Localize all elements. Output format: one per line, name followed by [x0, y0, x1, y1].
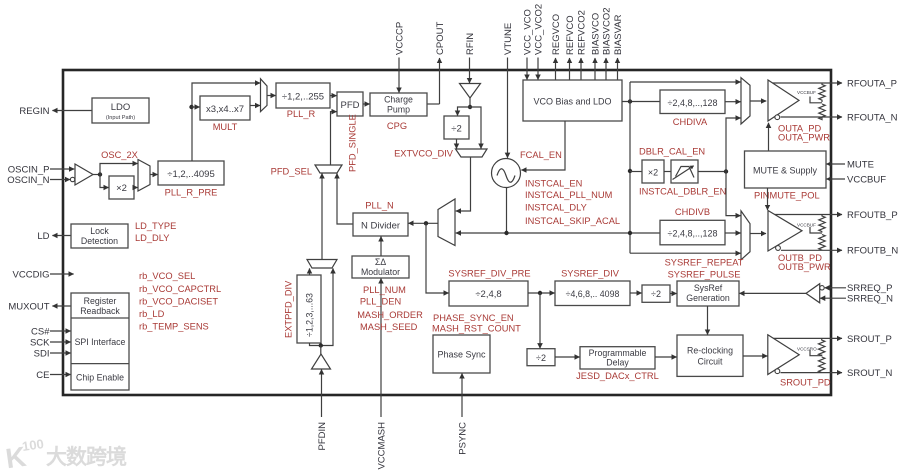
- node VCO bus top junction: [628, 99, 632, 103]
- modulator Sigma-Delta: [352, 256, 409, 278]
- wire VCO distribution bus: [629, 82, 631, 253]
- svg-text:LD_DLY: LD_DLY: [135, 233, 169, 243]
- block Programmable Delay: [580, 347, 655, 369]
- pin BIASVAR: [613, 14, 624, 80]
- wire filter out to doubler bus: [698, 169, 728, 173]
- node bus doubler junction: [628, 169, 642, 173]
- wire EXTPFD bypass: [321, 268, 333, 345]
- svg-text:SysRef: SysRef: [694, 283, 723, 293]
- wire VCO output down: [504, 188, 508, 236]
- svg-text:REFVCO: REFVCO: [565, 15, 576, 55]
- svg-text:÷2: ÷2: [451, 124, 462, 135]
- svg-text:MUXOUT: MUXOUT: [8, 301, 49, 312]
- svg-text:Chip Enable: Chip Enable: [76, 373, 124, 383]
- svg-text:Charge: Charge: [384, 95, 413, 105]
- pin BIASVCO: [590, 13, 601, 80]
- pin REGIN: [19, 106, 92, 117]
- svg-text:大数跨境: 大数跨境: [46, 445, 127, 469]
- svg-text:RFOUTA_N: RFOUTA_N: [847, 112, 898, 123]
- svg-text:RFOUTB_N: RFOUTB_N: [847, 245, 898, 256]
- svg-text:REFVCO2: REFVCO2: [576, 10, 587, 55]
- svg-text:OUTA_PWR: OUTA_PWR: [778, 133, 830, 143]
- wire mux to PLL_R: [267, 95, 276, 97]
- pin REFVCO2: [576, 10, 587, 80]
- svg-text:OSCIN_P: OSCIN_P: [8, 164, 50, 175]
- svg-text:÷4,6,8,.. 4098: ÷4,6,8,.. 4098: [566, 289, 620, 299]
- doubler x2: [642, 160, 664, 183]
- node RFIN junction: [468, 98, 472, 109]
- pin PSYNC: [457, 373, 468, 454]
- pin SROUT_N: [781, 368, 893, 379]
- svg-text:Programmable: Programmable: [589, 348, 647, 358]
- svg-text:JESD_DACx_CTRL: JESD_DACx_CTRL: [576, 371, 659, 381]
- svg-text:RFIN: RFIN: [465, 33, 476, 55]
- svg-text:BIASVCO2: BIASVCO2: [601, 7, 612, 55]
- svg-text:Generation: Generation: [686, 293, 730, 303]
- mux EXTPFD select: [307, 260, 337, 269]
- divider EXTVCO div2: [444, 116, 469, 139]
- pin LD: [37, 231, 71, 242]
- pin REFVCO: [565, 15, 576, 80]
- svg-text:RFOUTA_P: RFOUTA_P: [847, 78, 897, 89]
- svg-text:÷2,4,8,..,128: ÷2,4,8,..,128: [668, 229, 718, 239]
- wire x2 to mux: [134, 187, 138, 189]
- wire RFIN to EXTVCO div2: [458, 107, 471, 116]
- svg-text:PLL_R_PRE: PLL_R_PRE: [165, 188, 218, 198]
- svg-text:ΣΔ: ΣΔ: [375, 257, 386, 267]
- svg-text:VCO Bias and LDO: VCO Bias and LDO: [533, 97, 611, 107]
- wire FCAL_EN VCO bias to VCO: [521, 121, 565, 170]
- svg-text:rb_LD: rb_LD: [139, 309, 165, 319]
- svg-text:VCCBUF: VCCBUF: [797, 223, 816, 228]
- svg-text:PSYNC: PSYNC: [457, 422, 468, 455]
- svg-text:CE: CE: [36, 370, 49, 381]
- pin VCCBUF: [826, 174, 886, 185]
- divider SYSREF_DIV_PRE 2,4,8: [449, 281, 528, 306]
- wire x2 to filter: [664, 171, 671, 173]
- wire EXTPFD divider to mux: [309, 268, 311, 275]
- divider SYSREF_DIV 4,6,8..4098: [555, 281, 630, 306]
- pin CE: [36, 370, 70, 381]
- svg-text:CS#: CS#: [31, 326, 50, 337]
- svg-text:OSCIN_N: OSCIN_N: [7, 175, 49, 186]
- pin VCC_VCO2: [533, 4, 544, 80]
- svg-text:Lock: Lock: [90, 226, 109, 236]
- block Lock Detection: [71, 224, 128, 248]
- node bus feedback junction: [628, 231, 632, 235]
- buffer OSCIN input: [75, 164, 93, 185]
- svg-text:VCCMASH: VCCMASH: [376, 422, 387, 470]
- wire mute to amp A: [768, 123, 770, 151]
- svg-text:PFDIN: PFDIN: [317, 422, 328, 451]
- svg-text:PFD_SINGLE: PFD_SINGLE: [347, 114, 357, 172]
- svg-text:÷2: ÷2: [536, 353, 546, 363]
- svg-text:SYSREF_REPEAT: SYSREF_REPEAT: [665, 258, 744, 268]
- pin PFDIN: [317, 369, 328, 450]
- block Re-clocking Circuit: [677, 335, 743, 376]
- svg-text:÷1,2,..4095: ÷1,2,..4095: [167, 169, 214, 180]
- pin OSCIN_N: [7, 175, 75, 186]
- pin RFOUTA_P: [773, 78, 897, 89]
- svg-text:PHASE_SYNC_EN: PHASE_SYNC_EN: [433, 313, 514, 323]
- svg-text:EXTPFD_DIV: EXTPFD_DIV: [283, 280, 293, 338]
- wire mux to PLL_R_PRE: [150, 174, 158, 176]
- pin BIASVCO2: [601, 7, 612, 80]
- svg-text:Phase Sync: Phase Sync: [437, 350, 486, 360]
- wire div2 to Programmable Delay: [555, 356, 580, 358]
- svg-text:÷2: ÷2: [651, 289, 661, 299]
- wire PLL_R_PRE up to MULT bypass: [192, 83, 260, 161]
- svg-text:MASH_RST_COUNT: MASH_RST_COUNT: [432, 324, 521, 334]
- svg-text:(Input Path): (Input Path): [106, 115, 135, 121]
- svg-text:rb_VCO_CAPCTRL: rb_VCO_CAPCTRL: [139, 284, 221, 294]
- svg-text:REGVCO: REGVCO: [551, 14, 562, 55]
- wire N Divider feedback to PFD_SEL: [337, 173, 353, 224]
- svg-text:VCCBUF: VCCBUF: [797, 90, 816, 95]
- svg-text:INSTCAL_DLY: INSTCAL_DLY: [525, 203, 587, 213]
- node OSC junction: [93, 172, 102, 176]
- divider PLL_R: [276, 83, 330, 108]
- svg-text:LD_TYPE: LD_TYPE: [135, 221, 176, 231]
- pin VCCDIG: [13, 269, 74, 280]
- svg-text:PFD: PFD: [341, 100, 360, 111]
- wire bus to mux A top: [630, 81, 741, 83]
- pin CS#: [31, 326, 71, 337]
- block Charge Pump: [370, 93, 427, 116]
- mux RFOUTA select: [741, 78, 750, 124]
- block MUTE and Supply: [745, 151, 827, 188]
- svg-text:INSTCAL_PLL_NUM: INSTCAL_PLL_NUM: [525, 190, 612, 200]
- wire div_pre to sysref_div: [528, 291, 555, 295]
- pin SRREQ_N: [820, 294, 893, 305]
- pin VCCCP: [394, 22, 405, 93]
- svg-text:÷1,2,3,...63: ÷1,2,3,...63: [305, 293, 315, 337]
- svg-text:Readback: Readback: [80, 306, 120, 316]
- pin SDI: [34, 348, 71, 359]
- chip outline border: [63, 70, 831, 395]
- svg-text:SROUT_PD: SROUT_PD: [780, 378, 831, 388]
- wire mux to N Divider: [408, 221, 438, 225]
- svg-text:SROUT_P: SROUT_P: [847, 334, 892, 345]
- wire OSC to x2: [100, 175, 109, 188]
- wire div2 to SysRef Generation: [670, 293, 677, 295]
- svg-text:SRREQ_P: SRREQ_P: [847, 283, 892, 294]
- wire div2 to EXTVCO mux: [456, 139, 458, 149]
- svg-text:SRREQ_N: SRREQ_N: [847, 294, 893, 305]
- svg-text:LDO: LDO: [111, 102, 131, 113]
- wire Sigma-Delta to N Divider: [380, 236, 382, 256]
- wire Re-clocking to SROUT amp: [743, 355, 767, 357]
- divider CHDIVA: [660, 90, 725, 114]
- svg-text:BIASVCO: BIASVCO: [590, 13, 601, 55]
- wire SRREQ buffer to SysRef Generation: [739, 292, 806, 294]
- svg-text:SROUT_N: SROUT_N: [847, 368, 893, 379]
- amplifier RFOUTA: [768, 80, 816, 121]
- svg-text:DBLR_CAL_EN: DBLR_CAL_EN: [639, 147, 705, 157]
- svg-text:÷1,2,..255: ÷1,2,..255: [282, 92, 324, 103]
- svg-text:EXTVCO_DIV: EXTVCO_DIV: [394, 149, 454, 159]
- svg-text:MASH_SEED: MASH_SEED: [360, 322, 418, 332]
- svg-text:MUTE: MUTE: [847, 159, 874, 170]
- doubler OSC x2: [109, 176, 134, 199]
- svg-text:VCCCP: VCCCP: [394, 22, 405, 55]
- mux N feedback select: [438, 199, 455, 246]
- resistor RFOUTA termination: [810, 83, 825, 120]
- mux MULT bypass: [261, 79, 268, 112]
- mux EXTVCO select: [456, 149, 488, 157]
- svg-text:Register: Register: [84, 296, 117, 306]
- wire CHDIVA to mux A: [725, 101, 741, 103]
- svg-text:CPG: CPG: [387, 121, 407, 131]
- amplifier SROUT: [768, 335, 817, 375]
- oscillator VCO: [492, 159, 521, 188]
- filter doubler cal: [671, 160, 698, 183]
- watermark logo: [3, 436, 47, 474]
- pin SRREQ_P: [825, 283, 893, 294]
- mux PFD_SEL: [315, 165, 342, 173]
- block N Divider: [353, 213, 408, 236]
- svg-text:FCAL_EN: FCAL_EN: [520, 150, 562, 160]
- svg-text:LD: LD: [37, 231, 49, 242]
- svg-text:SCK: SCK: [30, 337, 50, 348]
- block VCO Bias and LDO: [523, 80, 622, 121]
- divider PLL_R_PRE: [158, 161, 224, 185]
- svg-text:VCC_VCO: VCC_VCO: [522, 9, 533, 55]
- svg-text:x3,x4..x7: x3,x4..x7: [206, 104, 244, 115]
- svg-text:SPI Interface: SPI Interface: [75, 337, 126, 347]
- svg-text:PINMUTE_POL: PINMUTE_POL: [754, 191, 820, 201]
- svg-text:INSTCAL_DBLR_EN: INSTCAL_DBLR_EN: [639, 187, 726, 197]
- resistor SROUT termination: [810, 338, 825, 372]
- svg-text:CHDIVB: CHDIVB: [675, 207, 710, 217]
- svg-text:VCCBUF: VCCBUF: [847, 174, 886, 185]
- wire EXTVCO mux to N feedback mux: [456, 157, 471, 211]
- wire CPOUT from charge pump: [427, 103, 440, 105]
- wire doubler bus to mux B top: [726, 172, 741, 216]
- pin OSCIN_P: [8, 164, 74, 175]
- svg-text:rb_VCO_DACISET: rb_VCO_DACISET: [139, 297, 218, 307]
- svg-text:SDI: SDI: [34, 348, 50, 359]
- svg-text:Pump: Pump: [387, 105, 410, 115]
- block Phase Sync: [433, 335, 490, 373]
- wire junction down to jesd div2: [539, 293, 541, 348]
- svg-text:INSTCAL_SKIP_ACAL: INSTCAL_SKIP_ACAL: [525, 216, 620, 226]
- svg-text:÷2,4,8,..,128: ÷2,4,8,..,128: [668, 98, 718, 108]
- pin MUTE: [826, 159, 874, 170]
- svg-text:Delay: Delay: [606, 358, 629, 368]
- pin VCCMASH: [376, 278, 387, 469]
- block SysRef Generation: [677, 281, 739, 306]
- svg-text:VCC_VCO2: VCC_VCO2: [533, 4, 544, 55]
- wire junction down to SYSREF_DIV_PRE: [426, 223, 449, 293]
- wire bus to mux B bottom (sysref repeat): [630, 252, 741, 254]
- pin REGVCO: [551, 14, 562, 80]
- pin CPOUT: [435, 22, 446, 104]
- svg-text:Detection: Detection: [81, 236, 118, 246]
- wire mux A to amp A: [750, 100, 766, 102]
- wire mute to amp B: [767, 188, 769, 210]
- wire PLL_R to PFD: [330, 95, 337, 97]
- svg-text:SYSREF_DIV_PRE: SYSREF_DIV_PRE: [448, 269, 530, 279]
- wire PFD to charge pump: [363, 103, 370, 105]
- svg-text:VTUNE: VTUNE: [503, 23, 514, 55]
- svg-text:VCCDIG: VCCDIG: [13, 269, 50, 280]
- mux RFOUTB select: [741, 211, 750, 260]
- svg-text:Circuit: Circuit: [698, 357, 723, 367]
- svg-text:×2: ×2: [648, 168, 658, 178]
- multiplier MULT x3,x4..x7: [200, 96, 250, 120]
- pin MUXOUT: [8, 301, 71, 312]
- svg-text:PFD_SEL: PFD_SEL: [271, 167, 312, 177]
- divider sysref div2: [642, 285, 670, 302]
- svg-text:÷2,4,8: ÷2,4,8: [475, 289, 501, 300]
- pin RFOUTB_N: [781, 245, 898, 256]
- node MULT input junction: [189, 105, 199, 109]
- svg-text:INSTCAL_EN: INSTCAL_EN: [525, 179, 582, 189]
- buffer SRREQ input: [806, 284, 824, 303]
- mux OSC_2X select: [138, 160, 150, 192]
- svg-text:100: 100: [21, 436, 45, 454]
- svg-text:PLL_N: PLL_N: [365, 201, 393, 211]
- svg-text:OUTB_PWR: OUTB_PWR: [778, 262, 831, 272]
- svg-text:MASH_ORDER: MASH_ORDER: [357, 310, 423, 320]
- wire Programmable Delay to Re-clocking: [655, 356, 677, 358]
- pin SCK: [30, 337, 71, 348]
- pin VCC_VCO: [522, 9, 533, 80]
- svg-text:REGIN: REGIN: [19, 106, 49, 117]
- wire VCO feedback line: [456, 232, 660, 234]
- divider EXTPFD 1,2,3..63: [297, 275, 321, 343]
- buffer RFIN input: [460, 84, 481, 99]
- svg-text:PLL_DEN: PLL_DEN: [360, 297, 401, 307]
- svg-text:×2: ×2: [116, 183, 127, 194]
- amplifier RFOUTB: [768, 211, 816, 252]
- pin SROUT_P: [774, 334, 892, 345]
- wire EXTPFD mux to PFD_SEL: [321, 173, 323, 259]
- wire MULT out: [250, 105, 260, 107]
- block Register Readback / SPI Interface / Chip Enable: [71, 293, 129, 390]
- svg-text:SYSREF_DIV: SYSREF_DIV: [561, 269, 620, 279]
- pin RFOUTB_P: [775, 210, 898, 221]
- wire OSC to mux top: [100, 164, 138, 175]
- svg-text:SYSREF_PULSE: SYSREF_PULSE: [668, 270, 741, 280]
- divider jesd div2: [527, 349, 555, 366]
- svg-text:MULT: MULT: [213, 122, 238, 132]
- svg-text:VCCSRO: VCCSRO: [797, 347, 817, 352]
- svg-text:rb_TEMP_SENS: rb_TEMP_SENS: [139, 322, 209, 332]
- svg-text:N Divider: N Divider: [361, 221, 400, 232]
- LDO (Input Path) box: [92, 98, 149, 123]
- svg-text:PLL_NUM: PLL_NUM: [363, 285, 406, 295]
- svg-text:MUTE & Supply: MUTE & Supply: [753, 166, 818, 176]
- wire SysRef Generation to Re-clocking: [707, 306, 709, 335]
- svg-text:CHDIVA: CHDIVA: [673, 117, 708, 127]
- pin RFOUTA_N: [781, 112, 898, 123]
- svg-text:OSC_2X: OSC_2X: [101, 150, 138, 160]
- svg-text:rb_VCO_SEL: rb_VCO_SEL: [139, 271, 195, 281]
- svg-text:CPOUT: CPOUT: [435, 22, 446, 55]
- wire sysref_div to div2: [630, 292, 642, 294]
- wire RFIN bypass to EXTVCO mux: [470, 107, 481, 149]
- svg-text:RFOUTB_P: RFOUTB_P: [847, 210, 898, 221]
- buffer PFDIN input: [312, 354, 331, 369]
- node EXTPFD junction: [310, 343, 323, 354]
- pin RFIN: [465, 33, 476, 83]
- wire doubler bus to mux A bottom: [726, 118, 741, 172]
- svg-text:Modulator: Modulator: [361, 267, 400, 277]
- resistor RFOUTB termination: [810, 215, 825, 251]
- wire PFD_SEL mux to PFD: [331, 112, 337, 165]
- wire CHDIVB to mux B: [725, 232, 741, 234]
- svg-text:BIASVAR: BIASVAR: [613, 14, 624, 55]
- wire VCO bias to CHDIVA: [622, 101, 660, 103]
- wire mux B to amp B: [750, 233, 766, 235]
- divider CHDIVB: [660, 220, 725, 245]
- svg-text:PLL_R: PLL_R: [287, 109, 316, 119]
- svg-text:Re-clocking: Re-clocking: [687, 346, 733, 356]
- block PFD: [337, 92, 363, 116]
- pin VTUNE: [503, 23, 514, 158]
